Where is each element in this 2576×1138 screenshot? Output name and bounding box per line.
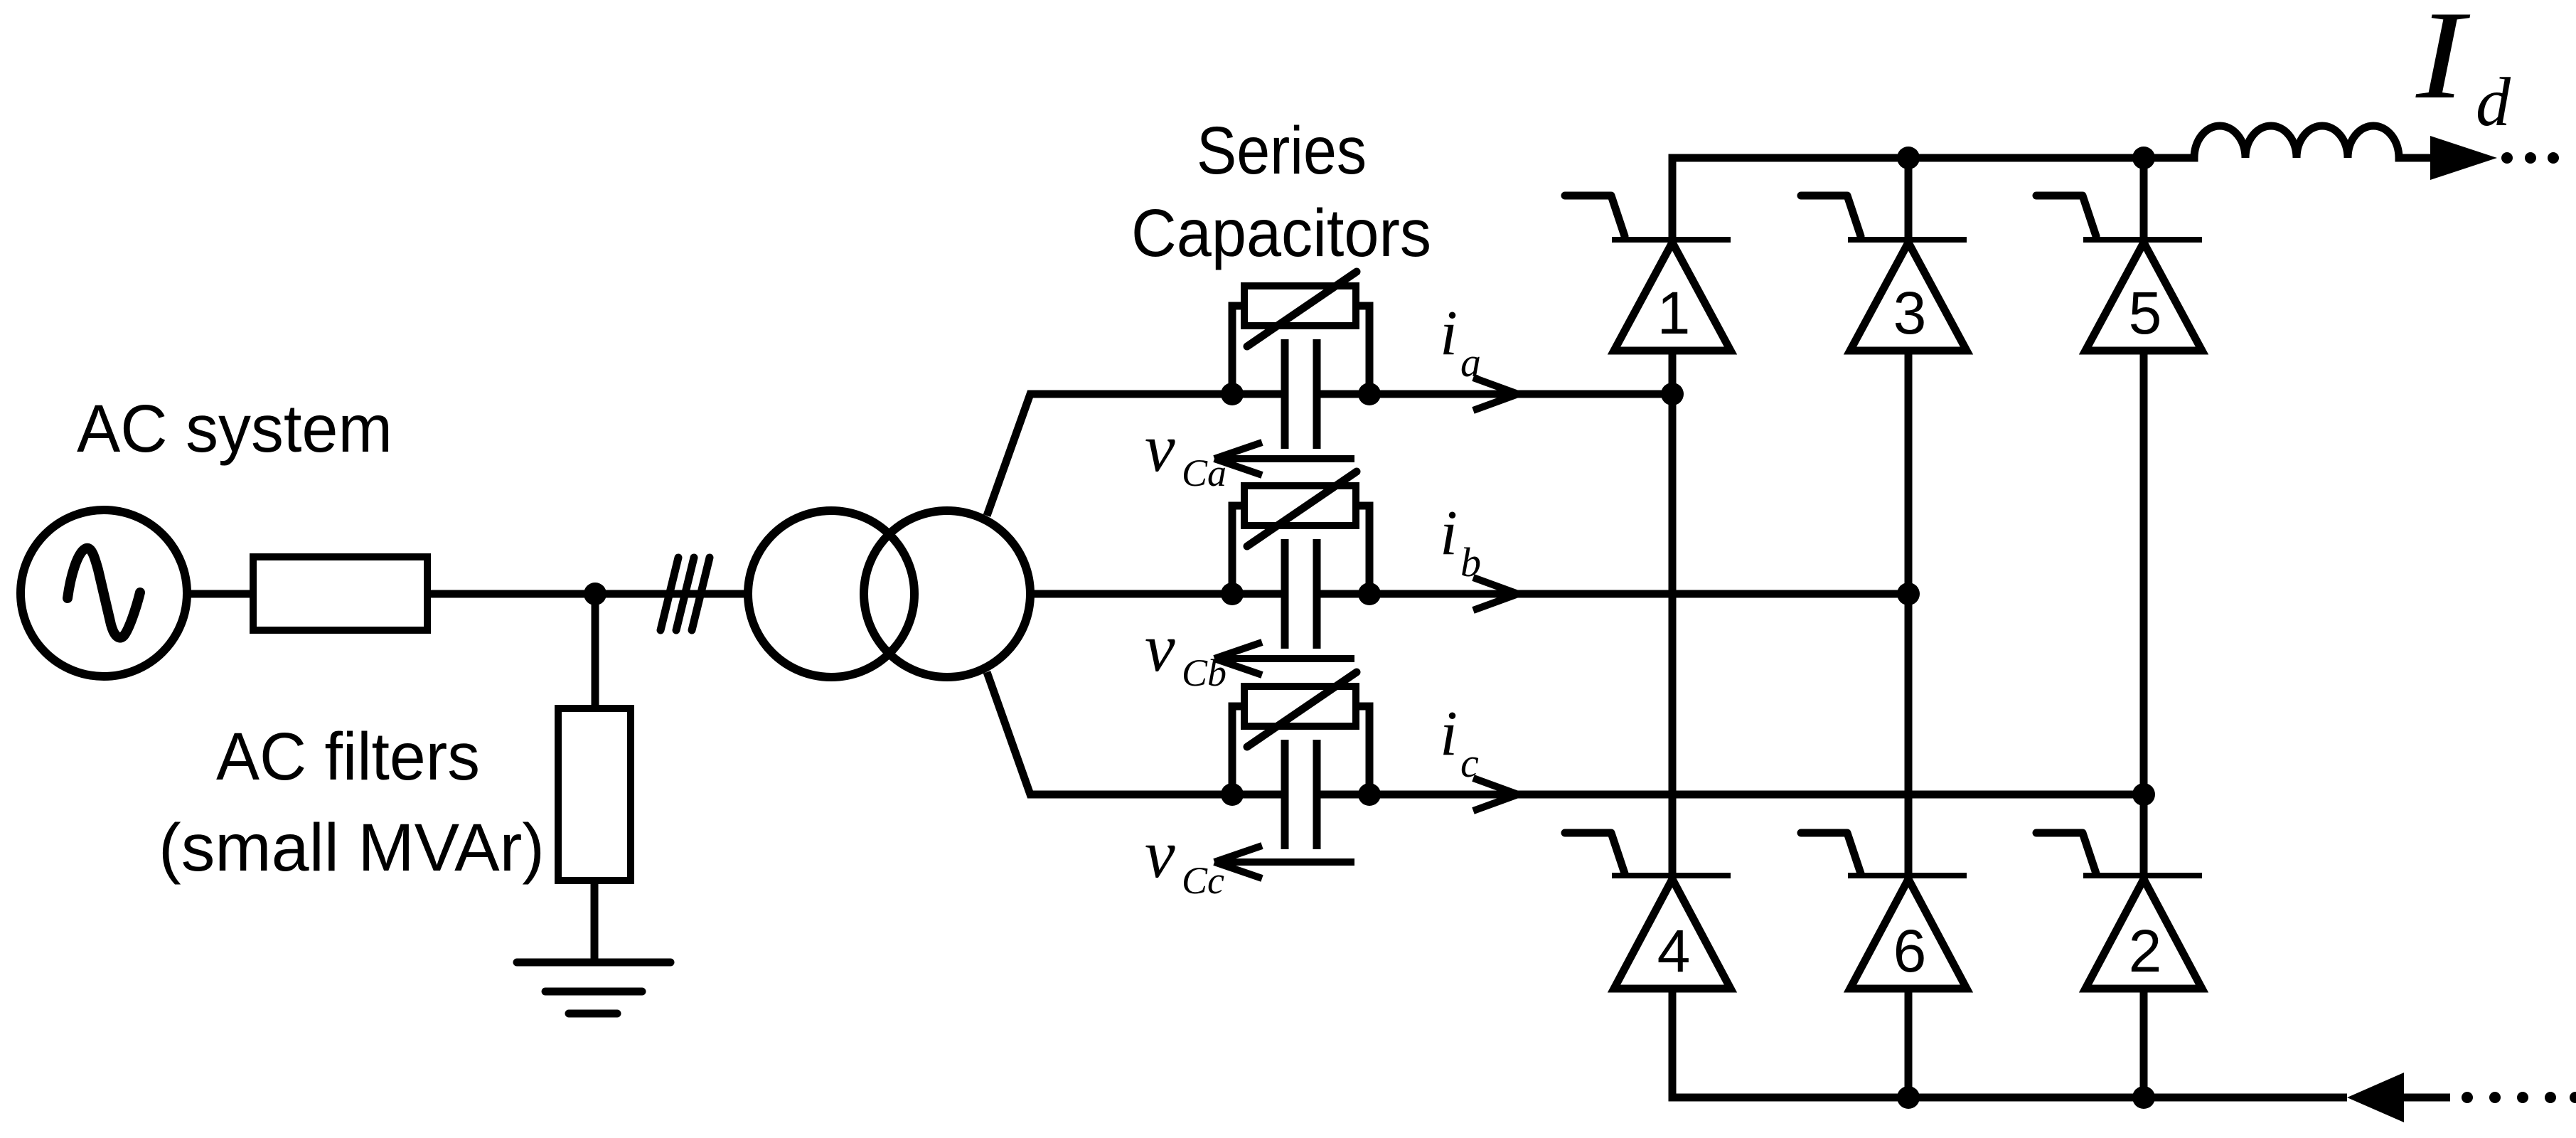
- svg-text:(small MVAr): (small MVAr): [159, 810, 545, 886]
- svg-text:v: v: [1145, 816, 1175, 892]
- svg-text:Cc: Cc: [1182, 859, 1224, 902]
- svg-text:i: i: [1440, 498, 1458, 568]
- svg-text:3: 3: [1893, 280, 1927, 346]
- svg-text:I: I: [2415, 0, 2471, 125]
- svg-text:d: d: [2476, 64, 2511, 141]
- svg-text:a: a: [1460, 339, 1481, 385]
- svg-text:Series: Series: [1197, 113, 1367, 188]
- svg-text:b: b: [1460, 539, 1481, 585]
- svg-text:2: 2: [2129, 918, 2162, 984]
- svg-text:Ca: Ca: [1182, 452, 1226, 494]
- svg-text:c: c: [1460, 740, 1479, 786]
- svg-text:Capacitors: Capacitors: [1131, 196, 1431, 271]
- svg-text:AC filters: AC filters: [216, 719, 480, 794]
- svg-text:v: v: [1145, 410, 1175, 486]
- svg-text:AC system: AC system: [77, 391, 392, 467]
- svg-text:v: v: [1145, 610, 1175, 686]
- svg-text:4: 4: [1657, 918, 1691, 984]
- svg-text:1: 1: [1657, 280, 1691, 346]
- svg-text:i: i: [1440, 298, 1458, 368]
- svg-text:i: i: [1440, 698, 1458, 769]
- svg-text:Cb: Cb: [1182, 652, 1226, 694]
- svg-text:6: 6: [1893, 918, 1927, 984]
- svg-text:5: 5: [2129, 280, 2162, 346]
